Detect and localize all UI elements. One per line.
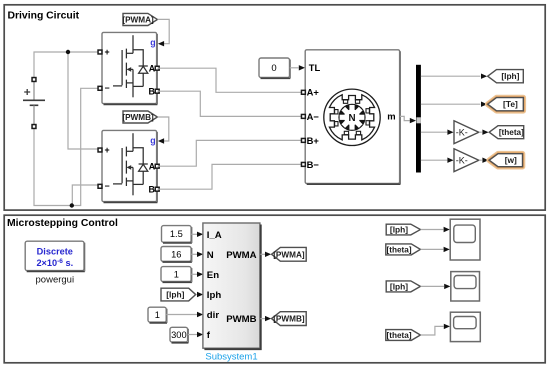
svg-text:[w]: [w]: [505, 155, 517, 165]
svg-text:N: N: [348, 113, 355, 124]
arrow into PWMB tag: [265, 316, 271, 321]
wire gain2 out: [479, 159, 482, 161]
svg-text:PWMB: PWMB: [226, 314, 256, 325]
svg-text:B+: B+: [307, 135, 320, 146]
port H2 +: [98, 148, 102, 152]
stepper motor icon: [324, 89, 380, 145]
svg-text:Discrete: Discrete: [37, 246, 73, 256]
svg-text:[Iph]: [Iph]: [166, 290, 184, 300]
wire Iph to scope2: [421, 285, 444, 287]
svg-text:m: m: [387, 111, 395, 122]
goto tag theta: [489, 126, 524, 139]
port battery -: [32, 125, 36, 129]
area box: Driving Circuit: [4, 5, 545, 210]
wire PWMB out: [260, 318, 265, 320]
wire H1 B to motor A-: [157, 91, 301, 116]
svg-text:-K-: -K-: [456, 127, 468, 137]
svg-text:A: A: [149, 161, 156, 171]
svg-text:+: +: [105, 47, 110, 57]
svg-text:g: g: [150, 136, 155, 146]
arrow into Iph tag: [481, 74, 487, 79]
arrow into PWMA tag: [265, 252, 271, 257]
gain K1: [454, 121, 479, 144]
svg-text:[PWMA]: [PWMA]: [273, 250, 305, 259]
svg-text:[theta]: [theta]: [387, 331, 412, 340]
port motor B-: [301, 162, 305, 166]
wire demux to gain1: [421, 131, 447, 133]
arrow into H1 g: [158, 41, 164, 46]
from tag PWMB: [122, 111, 157, 123]
port motor B+: [301, 138, 305, 142]
svg-text:TL: TL: [309, 62, 321, 73]
arrow scope3 in: [444, 324, 450, 329]
port battery +: [32, 78, 36, 82]
svg-text:[Iph]: [Iph]: [390, 225, 408, 235]
svg-text:0: 0: [271, 63, 276, 74]
from tag Iph scope1: [386, 224, 420, 235]
arrow into gain2: [447, 158, 453, 163]
port H2 A: [155, 164, 159, 168]
svg-text:[theta]: [theta]: [387, 245, 412, 254]
wire demux to Iph tag: [421, 75, 481, 77]
powergui block: [25, 241, 85, 271]
port H2 -: [98, 184, 102, 188]
svg-text:En: En: [207, 270, 219, 281]
svg-text:Subsystem1: Subsystem1: [205, 351, 257, 362]
svg-text:300: 300: [171, 330, 187, 340]
svg-text:[theta]: [theta]: [499, 128, 524, 137]
port H1 B: [155, 89, 159, 93]
from tag PWMA: [122, 13, 157, 25]
H-bridge block H2: [102, 130, 157, 202]
wire node to H2 +: [68, 52, 100, 149]
svg-text:-K-: -K-: [456, 155, 468, 165]
constant 1 En: [161, 267, 192, 283]
port motor A+: [301, 90, 305, 94]
wire battery+ to H1 +: [34, 52, 100, 80]
svg-text:16: 16: [171, 249, 181, 259]
svg-text:B−: B−: [307, 159, 320, 170]
port H1 +: [98, 50, 102, 54]
svg-text:1.5: 1.5: [170, 229, 183, 239]
arrow into En: [197, 272, 203, 277]
svg-text:A: A: [149, 63, 156, 73]
svg-text:[Te]: [Te]: [503, 99, 518, 109]
from tag theta scope1: [386, 244, 421, 255]
svg-text:B: B: [149, 86, 155, 96]
svg-text:PWMA: PWMA: [226, 250, 256, 261]
arrow into H2 g: [158, 138, 164, 143]
arrow scope1 in1: [444, 227, 450, 232]
wire 1.5 to I_A: [191, 233, 197, 235]
arrow into Te tag: [481, 102, 487, 107]
constant 16: [161, 247, 192, 263]
wire gain1 out: [479, 131, 482, 133]
port motor A-: [301, 114, 305, 118]
port H1 A: [155, 66, 159, 70]
wire H1 A to motor A+: [157, 68, 301, 92]
arrow into dir: [197, 312, 203, 317]
gain K2: [454, 149, 479, 172]
arrow scope1 in2: [444, 247, 450, 252]
wire m to demux: [400, 116, 410, 120]
constant 300: [170, 327, 188, 343]
constant block 0: [259, 58, 290, 78]
svg-text:[PWMB]: [PWMB]: [273, 315, 305, 324]
wire PWMA to H1 g: [158, 19, 170, 43]
junction node + rail: [66, 50, 70, 54]
port H1 -: [98, 86, 102, 90]
wire Iph to scope1: [421, 229, 444, 231]
svg-text:powergui: powergui: [36, 274, 75, 285]
wire 1 to En: [191, 273, 197, 275]
wire demux to Te tag: [421, 103, 481, 105]
wire battery- to H1 -: [34, 88, 100, 205]
svg-text:N: N: [207, 250, 214, 261]
demux: [416, 65, 421, 173]
arrow scope2 in: [444, 284, 450, 289]
mosfet icon inside H2: [113, 133, 148, 195]
svg-text:[Iph]: [Iph]: [501, 71, 519, 81]
goto tag w: [489, 154, 522, 167]
svg-text:+: +: [105, 145, 110, 155]
arrow into w tag: [482, 158, 488, 163]
wire 16 to N: [191, 253, 197, 255]
svg-text:−: −: [105, 181, 110, 191]
wire PWMA out: [260, 253, 265, 255]
svg-text:B: B: [149, 184, 155, 194]
from tag Iph scope2: [386, 281, 420, 292]
svg-text:[PWMB]: [PWMB]: [122, 113, 154, 122]
wire theta to scope3: [421, 326, 444, 335]
from tag theta scope3: [386, 330, 421, 341]
wire 0 to TL: [290, 67, 299, 69]
goto tag PWMB: [272, 312, 307, 326]
goto tag Iph: [488, 70, 524, 83]
wire Iph tag to Iph: [196, 294, 197, 296]
wire H2 - to node: [72, 185, 100, 206]
wire H2 A to motor B+: [157, 140, 301, 166]
stepper motor block: [305, 50, 400, 184]
svg-text:1: 1: [174, 270, 179, 280]
svg-text:[PWMA]: [PWMA]: [122, 15, 154, 24]
arrow into I_A: [197, 232, 203, 237]
demux input port marker: [416, 117, 421, 123]
arrow into f: [197, 332, 203, 337]
port H2 B: [155, 187, 159, 191]
svg-text:[Iph]: [Iph]: [390, 281, 408, 291]
wire demux to gain2: [421, 159, 447, 161]
arrow into demux: [410, 118, 416, 123]
svg-text:A−: A−: [307, 111, 320, 122]
wire PWMB to H2 g: [158, 117, 169, 141]
wire 300 to f: [188, 334, 197, 336]
goto tag Te: [488, 98, 524, 111]
svg-text:1: 1: [155, 310, 160, 320]
svg-text:dir: dir: [207, 310, 220, 321]
goto tag PWMA: [272, 247, 307, 261]
arrow into gain1: [447, 130, 453, 135]
constant 1.5: [162, 226, 192, 243]
svg-text:Microstepping Control: Microstepping Control: [7, 218, 118, 229]
battery V1: [23, 80, 45, 127]
from tag Iph input: [161, 288, 196, 301]
area box: Microstepping Control: [4, 215, 545, 363]
svg-text:2×10-6 s.: 2×10-6 s.: [36, 258, 73, 268]
svg-text:A+: A+: [307, 87, 320, 98]
wire H2 B to motor B-: [157, 164, 301, 189]
mosfet icon inside H1: [113, 35, 148, 97]
svg-text:Iph: Iph: [207, 290, 222, 301]
scope 2 (Iph): [451, 272, 480, 301]
svg-text:−: −: [105, 83, 110, 93]
svg-text:Driving Circuit: Driving Circuit: [8, 11, 80, 22]
H-bridge block H1: [102, 32, 157, 104]
svg-text:g: g: [150, 38, 155, 48]
scope 3 (theta): [450, 312, 480, 341]
svg-text:I_A: I_A: [207, 230, 222, 241]
arrow into theta tag: [482, 130, 488, 135]
scope 1 (Iph,theta): [450, 219, 480, 260]
arrow into N: [197, 252, 203, 257]
constant 1 dir: [148, 307, 167, 323]
wire theta to scope1: [421, 248, 444, 250]
arrow into TL: [299, 65, 305, 70]
wire 1 to dir: [166, 314, 197, 316]
junction node - rail: [70, 203, 74, 207]
arrow into Iph: [197, 292, 203, 297]
